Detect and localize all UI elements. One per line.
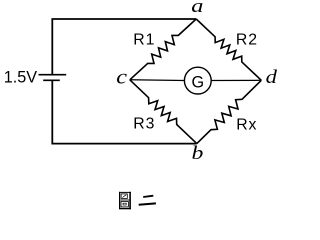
wire top (battery + to node a) — [52, 19, 196, 75]
svg-text:d: d — [266, 66, 278, 88]
resistor R2 (between a and d) — [196, 19, 261, 80]
svg-text:b: b — [192, 142, 204, 163]
wire bottom (battery - to node b) — [52, 80, 197, 143]
svg-text:c: c — [116, 65, 127, 88]
svg-text:G: G — [192, 73, 205, 91]
svg-text:Rx: Rx — [236, 117, 257, 134]
svg-text:R1: R1 — [133, 32, 155, 49]
galvanometer G — [184, 67, 211, 94]
battery B1 long plate — [39, 74, 67, 76]
wire c to galvanometer — [130, 79, 185, 82]
caption 圖二 (figure two) drawn as strokes — [119, 192, 156, 209]
resistor R3 (between c and b) — [130, 80, 197, 144]
wire galvanometer to d — [211, 79, 261, 81]
svg-text:R2: R2 — [236, 32, 258, 49]
resistor Rx (between b and d) — [197, 80, 261, 143]
resistor R1 (between c and a) — [130, 19, 196, 80]
battery B1 short plate — [43, 79, 60, 81]
svg-text:a: a — [191, 0, 203, 17]
svg-text:1.5V: 1.5V — [4, 69, 38, 87]
svg-text:R3: R3 — [133, 116, 155, 133]
